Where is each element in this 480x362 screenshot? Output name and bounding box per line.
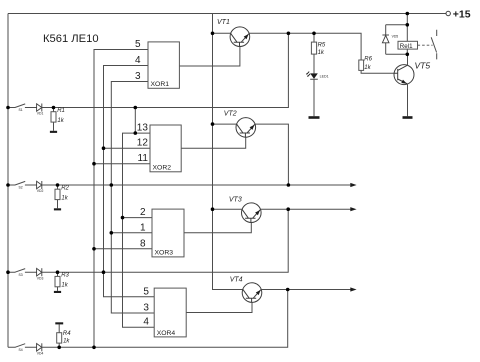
gate XOR2 — [150, 125, 181, 172]
svg-text:2: 2 — [140, 207, 146, 218]
svg-text:XOR1: XOR1 — [151, 81, 170, 88]
relay contact — [418, 30, 437, 60]
wire input row 3 — [8, 209, 288, 272]
junction tap-pin13 — [134, 131, 138, 135]
svg-text:1k: 1k — [61, 195, 68, 201]
svg-text:VD5: VD5 — [392, 34, 399, 38]
svg-text:LED1: LED1 — [320, 75, 329, 79]
svg-text:S2: S2 — [19, 186, 23, 190]
diode VD5 (flyback) — [382, 25, 407, 55]
switch S1 — [15, 103, 25, 112]
svg-text:1k: 1k — [61, 283, 68, 289]
junction R1-row1 — [52, 106, 56, 110]
wire XOR3 pin2 — [123, 217, 153, 219]
gate XOR1 — [148, 42, 179, 88]
ground (R2) — [54, 208, 61, 210]
wire row1 tap to pin13 — [134, 108, 136, 134]
junction busD-pin2 — [121, 216, 125, 220]
wire XOR4 output to VT4 base — [186, 302, 252, 312]
wire bus C (pin3/row2/pin1/XOR4 pin3) — [111, 82, 154, 314]
wire VT1 collector — [213, 32, 231, 34]
junction row1riser-emitter1 — [287, 32, 291, 36]
svg-text:S1: S1 — [19, 108, 23, 112]
output arrow VT4 — [350, 287, 356, 291]
output arrow row2 — [350, 183, 356, 187]
wire rail to relay and relay to VT5 collector — [406, 14, 408, 55]
svg-text:VD4: VD4 — [37, 351, 44, 355]
output arrow VT3 — [350, 207, 356, 211]
wire bus D (pin13/pin2/XOR4 pin4) — [123, 133, 155, 327]
diode VD3 — [37, 268, 44, 280]
junction VT2drop-row2 — [287, 183, 291, 187]
ground (R3) — [54, 291, 61, 293]
wire bus B (pin4/12/row3/XOR4 pin5) — [104, 66, 155, 297]
junction busA-row4 — [92, 346, 96, 350]
svg-text:R2: R2 — [61, 185, 69, 191]
svg-text:11: 11 — [138, 153, 149, 164]
svg-text:R5: R5 — [318, 43, 326, 49]
svg-text:1k: 1k — [57, 118, 64, 124]
svg-text:VT4: VT4 — [230, 276, 243, 283]
junction left-row3 — [6, 270, 10, 274]
junction left-row2 — [6, 183, 10, 187]
junction left-row1 — [6, 106, 10, 110]
junction busC-pin1 — [110, 231, 114, 235]
resistor R6 — [359, 57, 373, 72]
svg-text:1k: 1k — [364, 65, 371, 71]
junction VT3-emitter — [286, 207, 290, 211]
svg-text:4: 4 — [143, 317, 149, 328]
wire R6 bottom to VT5 base — [361, 70, 394, 73]
svg-text:5: 5 — [143, 286, 149, 297]
svg-text:8: 8 — [140, 238, 146, 249]
resistor R1 — [51, 108, 65, 131]
svg-text:XOR2: XOR2 — [153, 165, 172, 172]
svg-text:Rel1: Rel1 — [400, 43, 413, 50]
LED LED1 — [306, 72, 329, 117]
transistor VT2 — [224, 111, 256, 138]
junction busC-row2 — [110, 183, 114, 187]
junction busA-pin11 — [92, 162, 96, 166]
svg-text:5: 5 — [135, 39, 141, 50]
+15 terminal — [446, 11, 450, 15]
switch S4 — [15, 343, 25, 352]
wire left feed column — [7, 14, 9, 348]
wire XOR2 pin11 — [94, 163, 150, 165]
svg-text:К561 ЛЕ10: К561 ЛЕ10 — [43, 33, 99, 45]
wire VT2 collector — [213, 123, 237, 125]
svg-text:VD2: VD2 — [37, 189, 44, 193]
svg-text:4: 4 — [135, 55, 141, 66]
svg-text:VT1: VT1 — [217, 19, 230, 26]
ground (LED1) — [309, 116, 320, 119]
svg-text:VD3: VD3 — [37, 276, 44, 280]
junction VT4-emitter — [286, 288, 290, 292]
wire input row 4 — [8, 290, 288, 348]
wire VT2 emitter drop to row 2 — [255, 124, 288, 185]
svg-text:+15: +15 — [453, 9, 471, 21]
wire XOR1 output to VT1 base — [179, 46, 240, 66]
transistor VT4 — [230, 276, 262, 302]
svg-text:VD1: VD1 — [37, 112, 44, 116]
svg-text:3: 3 — [135, 71, 141, 82]
junction R2-row2 — [56, 183, 60, 187]
wire XOR2 pin12 — [104, 147, 151, 149]
junction R3-row3 — [56, 270, 60, 274]
gate XOR4 — [154, 288, 186, 337]
svg-text:R4: R4 — [63, 331, 71, 337]
switch S3 — [15, 268, 25, 277]
resistor R5 — [311, 33, 326, 73]
svg-text:3: 3 — [143, 303, 149, 314]
ground (R4) — [55, 322, 63, 324]
transistor VT5 — [394, 54, 430, 116]
wire VT1 emitter to R6 corner — [249, 33, 361, 60]
gate XOR3 — [152, 209, 184, 257]
diode VD4 — [37, 343, 44, 355]
svg-text:R6: R6 — [364, 57, 372, 63]
svg-text:R3: R3 — [61, 273, 69, 279]
resistor R2 — [55, 185, 70, 208]
junction diode-top — [406, 23, 410, 27]
svg-text:13: 13 — [137, 123, 149, 134]
wire XOR3 pin8 — [94, 248, 152, 250]
diode VD1 — [37, 104, 44, 116]
wire VT3 collector — [213, 208, 242, 210]
svg-text:VT5: VT5 — [415, 61, 431, 71]
relay Rel1 — [398, 41, 418, 50]
wire XOR3 pin1 — [111, 232, 152, 234]
svg-text:1k: 1k — [63, 339, 70, 345]
junction R4-row4 — [57, 346, 61, 350]
junction relay-collector — [406, 53, 410, 57]
wire input row 1 — [8, 33, 288, 107]
svg-text:XOR4: XOR4 — [157, 330, 176, 337]
junction busB-row3 — [102, 270, 106, 274]
junction bus213-VT1 — [211, 32, 215, 36]
junction R5-top — [312, 32, 316, 36]
svg-text:R1: R1 — [57, 108, 65, 114]
junction rail-relay — [406, 12, 410, 16]
switch S2 — [15, 181, 25, 190]
resistor R3 — [55, 272, 70, 291]
junction bus213-VT3 — [211, 207, 215, 211]
wire VT4 emitter to output arrow — [262, 289, 351, 291]
svg-text:S3: S3 — [19, 273, 23, 277]
svg-text:12: 12 — [137, 138, 149, 149]
resistor R4 — [57, 324, 72, 347]
ground (VT5 emitter) — [403, 116, 413, 119]
wire XOR3 output to VT3 base — [184, 222, 251, 232]
wire input row 2 — [8, 184, 351, 186]
wire XOR2 output to VT2 base — [181, 137, 246, 148]
wire collector bus x=213 — [213, 14, 243, 290]
junction busB-pin12 — [102, 146, 106, 150]
svg-text:VT3: VT3 — [229, 197, 242, 204]
junction busA-pin8 — [92, 247, 96, 251]
svg-text:1k: 1k — [318, 50, 325, 56]
transistor VT1 — [217, 19, 250, 47]
diode VD2 — [37, 181, 44, 193]
wire VT3 emitter to output arrow — [261, 208, 351, 210]
svg-text:1: 1 — [140, 222, 146, 233]
svg-text:S4: S4 — [19, 348, 23, 352]
junction bus213-VT2 — [211, 122, 215, 126]
svg-text:XOR3: XOR3 — [155, 250, 174, 257]
node +15 rail — [8, 13, 446, 15]
ground (R1) — [50, 131, 57, 133]
transistor VT3 — [229, 197, 261, 223]
junction tap-row1 — [134, 106, 138, 110]
svg-text:VT2: VT2 — [224, 111, 237, 118]
wire bus A (pin5/11/8/row4) — [94, 50, 148, 348]
